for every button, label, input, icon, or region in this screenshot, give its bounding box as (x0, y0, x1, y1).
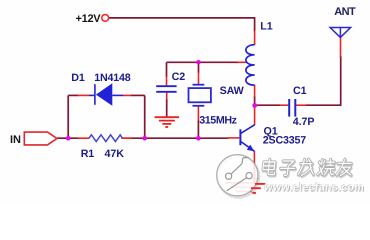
svg-text:www.elecfans.com: www.elecfans.com (263, 182, 364, 194)
svg-text:C1: C1 (293, 85, 307, 97)
svg-text:4.7P: 4.7P (293, 116, 315, 128)
svg-text:ANT: ANT (334, 6, 356, 18)
svg-text:D1: D1 (71, 72, 85, 84)
svg-text:IN: IN (10, 134, 21, 146)
svg-text:2SC3357: 2SC3357 (263, 135, 306, 147)
svg-text:SAW: SAW (220, 85, 245, 97)
svg-text:L1: L1 (260, 20, 272, 32)
svg-text:1N4148: 1N4148 (94, 72, 130, 84)
svg-text:315MHz: 315MHz (199, 115, 236, 127)
svg-text:C2: C2 (172, 71, 186, 83)
svg-text:R1: R1 (81, 148, 95, 160)
svg-text:47K: 47K (105, 148, 125, 160)
svg-text:+12V: +12V (76, 13, 102, 25)
